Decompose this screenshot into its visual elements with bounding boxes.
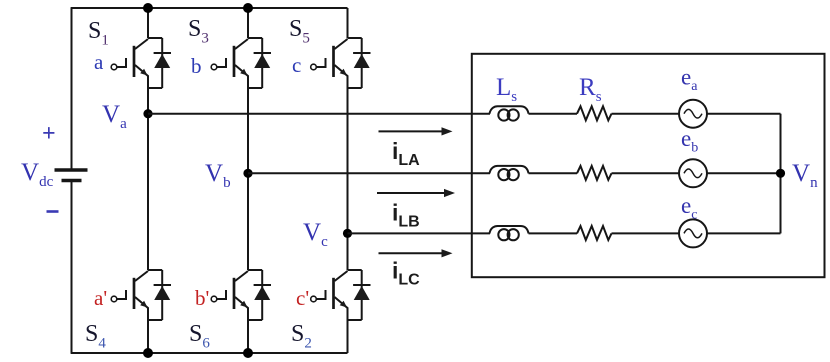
wire: left DC bus upper <box>71 8 73 169</box>
svg-text:S6: S6 <box>189 321 210 352</box>
svg-text:Rs: Rs <box>579 74 602 105</box>
svg-text:iLB: iLB <box>392 200 420 231</box>
wire: phase B output <box>248 172 490 174</box>
svg-text:b: b <box>191 54 202 78</box>
IGBT switch S6 with anti-parallel diode <box>211 270 271 320</box>
svg-text:S1: S1 <box>88 18 109 49</box>
wire: phase C output <box>348 232 491 234</box>
junction node on bottom rail leg B <box>243 348 253 358</box>
svg-text:a': a' <box>94 286 107 310</box>
resistor Rs phase B <box>577 166 612 180</box>
inductor Ls phase B <box>490 166 529 180</box>
svg-text:c: c <box>292 53 301 77</box>
svg-text:Vdc: Vdc <box>21 159 54 190</box>
wire: top rail <box>71 7 348 9</box>
node Vn <box>776 169 785 178</box>
svg-text:c': c' <box>296 286 309 310</box>
wire: bottom rail <box>71 352 348 354</box>
wire: phase A after resistor <box>612 113 680 115</box>
wire: leg C middle <box>347 88 349 270</box>
inductor Ls phase C <box>490 226 529 240</box>
wire: phase B after resistor <box>612 172 680 174</box>
svg-text:Ls: Ls <box>496 74 517 105</box>
svg-text:ea: ea <box>681 65 698 95</box>
svg-text:iLC: iLC <box>392 258 420 289</box>
wire: leg A lower <box>147 320 149 353</box>
wire: left DC bus lower <box>71 182 73 354</box>
wire: leg A upper <box>147 8 149 38</box>
wire: phase C source to neutral <box>707 232 781 234</box>
svg-text:Vn: Vn <box>792 160 818 191</box>
IGBT switch S1 with anti-parallel diode <box>111 38 171 88</box>
wire: phase B source to neutral <box>707 172 781 174</box>
svg-text:Vc: Vc <box>303 219 328 250</box>
node Vc <box>343 229 352 238</box>
wire: leg C upper <box>347 8 349 38</box>
wire: phase A output <box>148 113 490 115</box>
wire: neutral vertical <box>780 114 782 234</box>
wire: leg B upper <box>247 8 249 38</box>
IGBT switch S4 with anti-parallel diode <box>111 270 171 320</box>
inductor Ls phase A <box>490 106 529 120</box>
svg-text:S3: S3 <box>188 16 209 47</box>
AC source eb <box>679 159 707 187</box>
junction node on top rail leg B <box>243 3 253 13</box>
current arrow iLC <box>379 249 453 257</box>
wire: leg B lower <box>247 320 249 353</box>
svg-text:b': b' <box>195 286 209 310</box>
wire: leg B middle <box>247 88 249 270</box>
wire: phase A after inductor <box>529 113 578 115</box>
node Va <box>143 109 152 118</box>
junction node on top rail leg A <box>143 3 153 13</box>
svg-text:S5: S5 <box>289 16 310 47</box>
AC source ea <box>679 100 707 128</box>
label minus <box>47 210 59 213</box>
svg-text:iLA: iLA <box>392 138 420 169</box>
svg-text:ec: ec <box>681 193 697 223</box>
wire: leg A middle <box>147 88 149 270</box>
svg-text:Va: Va <box>102 101 127 132</box>
AC source ec <box>679 219 707 247</box>
IGBT switch S2 with anti-parallel diode <box>311 270 371 320</box>
current arrow iLB <box>377 189 455 197</box>
svg-text:S2: S2 <box>291 321 312 352</box>
wire: phase A source to neutral <box>707 113 781 115</box>
svg-text:a: a <box>94 50 104 74</box>
wire: phase B after inductor <box>529 172 578 174</box>
load box <box>472 54 825 277</box>
resistor Rs phase C <box>577 226 612 240</box>
wire: phase C after resistor <box>612 232 680 234</box>
svg-text:Vb: Vb <box>205 160 231 191</box>
IGBT switch S5 with anti-parallel diode <box>311 38 371 88</box>
resistor Rs phase A <box>577 106 612 120</box>
svg-text:eb: eb <box>681 126 698 156</box>
current arrow iLA <box>379 127 453 135</box>
node Vb <box>243 169 252 178</box>
svg-text:+: + <box>42 121 56 147</box>
svg-text:S4: S4 <box>85 321 106 352</box>
wire: phase C after inductor <box>529 232 578 234</box>
junction node on bottom rail leg A <box>143 348 153 358</box>
battery Vdc <box>55 170 88 181</box>
wire: leg C lower <box>347 320 349 353</box>
IGBT switch S3 with anti-parallel diode <box>211 38 271 88</box>
